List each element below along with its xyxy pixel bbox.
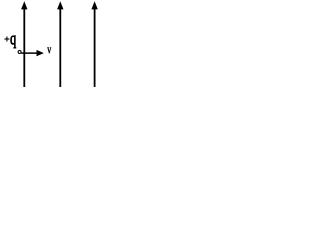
field line arrow 3 (right, upward)	[91, 1, 97, 87]
label +q : plus sign	[4, 37, 9, 42]
field line arrow 2 (middle, upward)	[57, 1, 63, 87]
velocity vector v (horizontal arrow to the right)	[21, 50, 44, 56]
label +q : letter q	[10, 36, 15, 48]
charge +q (open circle on left field line)	[18, 51, 21, 54]
label v	[47, 48, 51, 54]
field line arrow 1 (left, upward)	[21, 1, 27, 87]
